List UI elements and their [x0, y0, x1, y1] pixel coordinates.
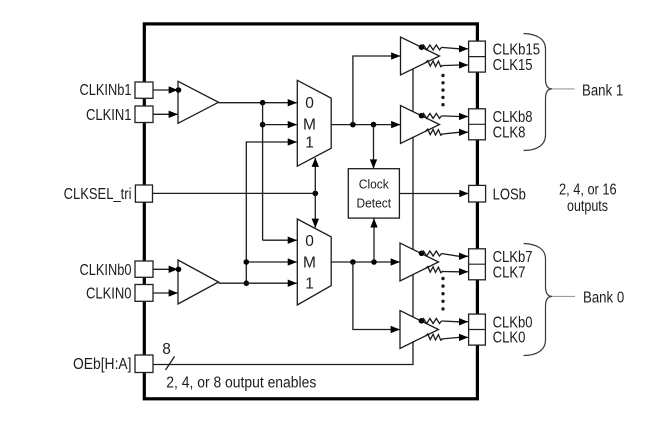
wire CLKIN0 to U2: [153, 292, 178, 294]
svg-text:2, 4, or 16: 2, 4, or 16: [559, 182, 617, 199]
resistor R8: [426, 334, 444, 340]
svg-text:CLKb15: CLKb15: [493, 41, 540, 58]
svg-text:Clock: Clock: [359, 177, 389, 192]
brace Bank 0: [524, 244, 552, 356]
svg-text:1: 1: [305, 276, 314, 293]
wire M1 out down to clock detect: [373, 125, 375, 169]
wire R2 to CLK15: [442, 64, 468, 67]
wire vertical A (CLKIN1 net down): [262, 103, 264, 241]
svg-text:M: M: [303, 255, 316, 272]
pin CLKIN0: [135, 285, 153, 302]
wire enable A3-A4: [412, 275, 414, 317]
wire enable A4 to OEb: [153, 341, 413, 364]
output buffer A2: [401, 106, 440, 144]
svg-text:CLKb8: CLKb8: [493, 109, 533, 126]
output buffer A4: [400, 311, 439, 349]
resistor R2: [426, 61, 444, 67]
ellipsis bank0: [441, 277, 444, 311]
wire CLKSEL to M0 select: [314, 193, 316, 227]
pin OEb[H:A]: [135, 355, 153, 373]
wire R7 to CLKb0: [442, 320, 468, 323]
wire R3 to CLKb8: [442, 115, 468, 118]
junction dot A2 upper out: [419, 113, 425, 119]
svg-text:outputs: outputs: [567, 198, 608, 215]
resistor R7: [422, 319, 442, 324]
svg-text:LOSb: LOSb: [493, 186, 526, 203]
junction dot M0 out split: [350, 259, 356, 265]
wire CLKINb1 to U1: [153, 89, 178, 91]
output buffer A3: [400, 243, 439, 281]
junction dot node B row1: [244, 280, 250, 286]
wire R8 to CLK0: [442, 337, 468, 339]
junction dot A3 upper out: [419, 251, 425, 257]
mux M1: [297, 80, 331, 166]
pin LOSb: [469, 185, 486, 202]
svg-text:CLK8: CLK8: [493, 125, 526, 142]
pin CLKIN1: [135, 106, 153, 123]
junction dot U2 inverting input: [176, 267, 182, 273]
junction dot node A rowM: [260, 122, 266, 128]
pin CLKSEL_tri: [135, 185, 152, 202]
svg-text:M: M: [303, 117, 316, 134]
pin pair CLKb7/CLK7: [469, 249, 486, 280]
wire CLKSEL_tri: [153, 192, 316, 194]
pin CLKINb0: [135, 261, 153, 277]
wire enable A1-A2: [412, 69, 414, 112]
junction dot U1 inverting input: [176, 87, 182, 93]
bus slash: [166, 357, 175, 371]
pin pair CLKb15/CLK15: [469, 41, 486, 72]
wire vertical B to M1 input 1: [246, 142, 296, 283]
svg-text:CLK0: CLK0: [493, 330, 526, 347]
resistor R3: [422, 113, 442, 118]
ellipsis bank1: [441, 74, 444, 107]
brace Bank 1: [524, 34, 552, 151]
resistor R4: [426, 129, 444, 135]
resistor R1: [422, 45, 442, 50]
wire R6 to CLK7: [442, 271, 468, 273]
wire enable A2-A3: [412, 137, 414, 249]
wire R5 to CLKb7: [442, 254, 468, 257]
wire M0 out down to A4: [353, 262, 400, 330]
svg-text:CLKINb1: CLKINb1: [80, 82, 132, 99]
svg-text:Detect: Detect: [357, 196, 392, 211]
pin pair CLKb8/CLK8: [469, 109, 486, 140]
wire node B to M0 input M: [246, 261, 296, 263]
wire M1 output: [331, 124, 400, 126]
svg-text:CLKIN1: CLKIN1: [86, 107, 132, 124]
wire R4 to CLK8: [442, 132, 468, 134]
wire U3 to LOSb: [399, 193, 468, 195]
svg-text:Bank 0: Bank 0: [583, 289, 625, 306]
resistor R6: [426, 267, 444, 273]
svg-text:CLKIN0: CLKIN0: [86, 285, 132, 302]
wire U1 output to node A: [219, 102, 263, 104]
svg-text:Bank 1: Bank 1: [582, 82, 623, 99]
wire node A to M1 input M: [263, 124, 297, 126]
wire M0 out up to clock detect: [373, 219, 375, 262]
wire CLKIN1 to U1: [153, 113, 178, 115]
wire M0 output: [331, 261, 399, 263]
wire U2 output to M0 input 1: [219, 282, 297, 284]
svg-text:0: 0: [305, 233, 314, 250]
svg-text:OEb[H:A]: OEb[H:A]: [73, 356, 132, 373]
svg-text:CLK15: CLK15: [493, 57, 533, 74]
clock detect U3: [348, 169, 399, 218]
mux M0: [297, 219, 331, 305]
leader Bank 0: [552, 295, 575, 297]
svg-text:0: 0: [305, 95, 314, 112]
junction dot M1 out split: [350, 122, 356, 128]
wire R1 to CLKb15: [442, 47, 468, 48]
svg-text:CLKINb0: CLKINb0: [80, 262, 132, 279]
junction dot node B rowM: [244, 259, 250, 265]
junction dot CLKSEL node: [313, 191, 319, 197]
svg-text:8: 8: [162, 341, 171, 358]
pin CLKINb1: [135, 82, 153, 98]
svg-text:2, 4, or 8 output enables: 2, 4, or 8 output enables: [166, 375, 316, 392]
junction dot A4 upper out: [419, 318, 425, 324]
wire M1 out up to A1: [353, 56, 400, 125]
resistor R5: [422, 251, 442, 256]
output buffer A1: [401, 37, 440, 75]
wire CLKSEL to M1 select: [314, 158, 316, 193]
svg-text:CLK7: CLK7: [493, 264, 526, 281]
svg-text:CLKSEL_tri: CLKSEL_tri: [64, 186, 132, 203]
junction dot M0 out to detect: [371, 259, 377, 265]
input buffer U2: [178, 260, 219, 304]
wire CLKINb0 to U2: [153, 268, 178, 270]
wire node A to M1 input 0: [263, 102, 297, 104]
junction dot A1 upper out: [419, 44, 425, 50]
leader Bank 1: [552, 88, 575, 90]
junction dot M1 out to detect: [371, 122, 377, 128]
svg-text:1: 1: [305, 135, 314, 152]
wire vertical A to M0 input 0: [263, 239, 297, 241]
junction dot node A row0: [260, 100, 266, 106]
device outline: [144, 24, 477, 399]
pin pair CLKb0/CLK0: [469, 314, 486, 345]
input buffer U1: [178, 81, 219, 123]
